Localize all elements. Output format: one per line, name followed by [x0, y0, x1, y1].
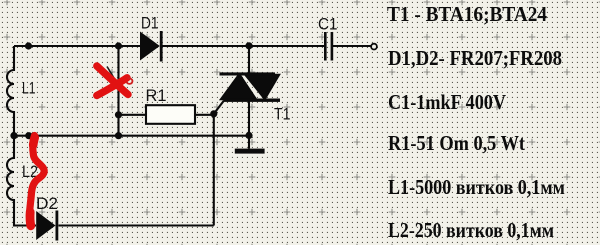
- junction node mid rail / left rail: [10, 132, 17, 139]
- wire top rail right segment (C1 right plate to output terminal): [333, 45, 371, 47]
- diode D1: [140, 31, 163, 62]
- svg-text:L2-250 витков 0,1мм: L2-250 витков 0,1мм: [388, 218, 554, 242]
- junction node top rail / triac anode: [245, 42, 252, 49]
- wire bottom rail (D2 cathode to vertical riser): [59, 224, 214, 226]
- svg-text:L1: L1: [22, 80, 36, 98]
- wire R1 left lead: [119, 114, 147, 116]
- svg-text:D1: D1: [141, 15, 159, 33]
- wire top rail middle segment (D1 cathode to C1 left plate): [163, 45, 325, 47]
- triac T1: [220, 72, 281, 102]
- inductor L2: [7, 136, 36, 226]
- junction node R1 left terminal: [115, 111, 122, 118]
- svg-text:R1-51 Om 0,5 Wt: R1-51 Om 0,5 Wt: [388, 131, 525, 155]
- pen mark black tick under red X: [107, 67, 115, 80]
- annotation red squiggle over L2: [30, 136, 45, 226]
- annotation red squiggle bottom blob: [26, 212, 36, 226]
- diode D2: [36, 211, 58, 241]
- capacitor C1: [324, 32, 333, 61]
- wire triac bottom to ground: [248, 102, 250, 149]
- svg-text:R1: R1: [146, 87, 167, 105]
- annotation red squiggle top blob: [33, 138, 35, 146]
- junction node mid rail / triac cathode: [245, 132, 252, 139]
- junction node top-left stub: [25, 42, 32, 49]
- annotation red X cross-out stroke 1: [97, 66, 128, 95]
- svg-text:C1-1mkF 400V: C1-1mkF 400V: [388, 90, 506, 114]
- svg-text:C1: C1: [318, 15, 338, 33]
- wire vertical from R1 right node down to bottom rail: [213, 114, 215, 226]
- annotation red X hook curl: [127, 78, 133, 84]
- wire triac anode riser: [248, 46, 250, 73]
- wire vertical from top rail down to R1 node: [117, 46, 119, 136]
- inductor L1: [7, 46, 14, 136]
- resistor R1: [146, 105, 195, 124]
- svg-text:T1 - BTA16;BTA24: T1 - BTA16;BTA24: [387, 2, 547, 26]
- wire top rail left segment (L1 top to D1 anode): [14, 45, 140, 47]
- svg-text:D1,D2- FR207;FR208: D1,D2- FR207;FR208: [388, 46, 562, 70]
- wire triac gate lead: [214, 101, 224, 114]
- svg-text:T1: T1: [274, 105, 291, 123]
- junction node mid rail / R1 branch: [115, 132, 122, 139]
- svg-text:L1-5000 витков 0,1мм: L1-5000 витков 0,1мм: [388, 175, 565, 199]
- junction node R1 right terminal / gate: [210, 110, 217, 117]
- junction node top rail / R1 branch: [115, 42, 122, 49]
- wire mid rail (transformer tap to triac cathode node): [14, 135, 249, 137]
- junction node mid rail stub: [25, 132, 32, 139]
- annotation red X cross-out stroke 2: [97, 78, 127, 96]
- wire R1 right lead: [195, 114, 214, 116]
- svg-text:D2: D2: [36, 195, 58, 213]
- output terminal circle: [371, 44, 377, 50]
- ground: [235, 149, 265, 154]
